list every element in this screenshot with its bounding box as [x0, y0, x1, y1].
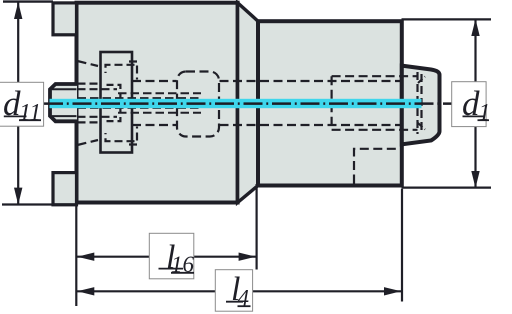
hidden bore line upper long left	[132, 80, 177, 82]
dimension l4 line	[76, 290, 402, 292]
dimension d11 arrow top	[14, 2, 22, 19]
hidden nose thread end line	[416, 72, 418, 134]
hidden thread bore upper a	[78, 82, 101, 84]
hidden chamfer diagonal upper	[78, 61, 99, 66]
dimension d11 line	[17, 2, 19, 205]
hidden screw shank bottom	[107, 107, 121, 121]
hidden step right of pocket bottom	[129, 127, 137, 145]
cylindrical body	[258, 21, 402, 185]
dimension l16 line	[76, 256, 256, 258]
hidden counterbore upper	[332, 75, 418, 77]
dimension d1 arrow bottom	[471, 171, 479, 188]
extension line for l4 right	[401, 189, 403, 302]
hidden step right of pocket top	[129, 62, 137, 80]
hidden counterbore lower	[332, 129, 418, 131]
hidden counterbore face	[331, 76, 333, 130]
right spigot nose	[402, 66, 440, 145]
dimension l4 arrow left	[77, 287, 94, 295]
label box l4	[215, 270, 252, 312]
hidden bore line lower long left	[132, 124, 177, 126]
hidden bore line lower long right	[220, 124, 402, 126]
hidden set screw pocket	[354, 149, 402, 184]
hidden nose bore end line	[420, 74, 422, 132]
extension line left for l16 l4	[75, 206, 77, 307]
hidden pocket step bottom	[106, 133, 135, 141]
dimension d11 extension bottom	[2, 203, 77, 205]
left pilot nose	[50, 84, 77, 121]
label box l16	[149, 233, 194, 278]
top drive tab	[53, 3, 77, 35]
nose thread line lower	[52, 115, 77, 117]
dimension d11 extension top	[3, 0, 53, 2]
hidden cartridge rounded rect	[177, 72, 219, 137]
dimension d1 extension top	[402, 18, 492, 20]
centerline dash-dot	[44, 102, 452, 105]
dimension d11 arrow bottom	[14, 188, 22, 205]
dimension d1 extension bottom	[402, 187, 492, 189]
nose thread line upper	[52, 88, 77, 90]
extension line for l16 right	[256, 184, 258, 270]
label box d11	[0, 82, 44, 126]
hidden small bore lower	[78, 107, 202, 109]
dimension d1 arrow top	[471, 19, 479, 36]
hidden drawbar thread upper	[118, 92, 201, 94]
svg-text:1: 1	[479, 100, 491, 126]
conical transition flange to body	[238, 3, 258, 203]
dimension l16 arrow left	[77, 253, 94, 261]
hidden pocket step top	[106, 65, 135, 73]
hidden chamfer diagonal lower	[78, 140, 99, 145]
dimension l16 arrow right	[239, 253, 256, 261]
hidden thread bore lower a	[78, 121, 101, 123]
clamping screw pocket	[101, 52, 133, 153]
hidden small bore upper	[78, 97, 202, 99]
bottom drive tab	[53, 173, 77, 205]
label box d1	[452, 82, 486, 127]
dimension d1 line	[474, 20, 476, 188]
hidden thread bore upper b	[78, 88, 118, 90]
flange main block	[77, 3, 238, 203]
hidden nose chamfer lower	[418, 123, 425, 130]
hidden drawbar thread lower	[118, 112, 201, 114]
hidden screw shank top	[107, 85, 121, 99]
hidden thread bore lower b	[78, 116, 118, 118]
cyan centerline band	[50, 99, 422, 108]
svg-text:11: 11	[19, 100, 41, 126]
dimension l4 arrow right	[384, 287, 401, 295]
hidden bore line upper long right	[220, 80, 402, 82]
hidden nose chamfer upper	[418, 77, 425, 84]
